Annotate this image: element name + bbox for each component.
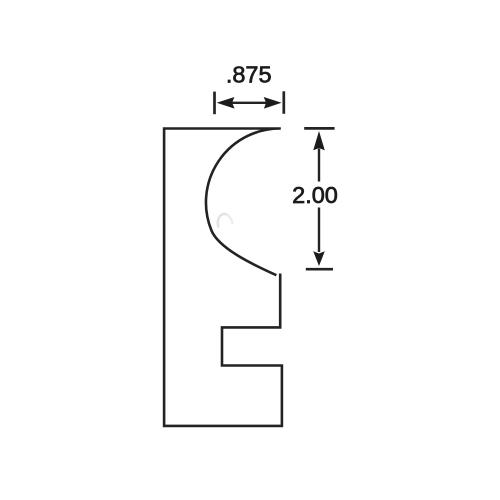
watermark faint mark (218, 214, 229, 227)
watermark faint tail (228, 216, 233, 223)
profile outline (moulding cross-section with cove) (164, 128, 282, 425)
arrowhead right (264, 97, 282, 109)
svg-text:.875: .875 (226, 61, 272, 87)
arrowhead up (313, 131, 325, 150)
dimension 2.00 lower shaft (318, 208, 320, 253)
arrowhead left (217, 97, 235, 109)
arrowhead down (313, 251, 325, 266)
dimension .875 line (232, 102, 266, 104)
dimension .875 left extension line (213, 92, 216, 115)
svg-text:2.00: 2.00 (292, 182, 338, 208)
dimension 2.00 bottom tick (306, 268, 333, 271)
dimension .875 right extension line (282, 91, 285, 114)
dimension 2.00 top tick (304, 127, 334, 130)
dimension 2.00 upper shaft (318, 149, 320, 182)
